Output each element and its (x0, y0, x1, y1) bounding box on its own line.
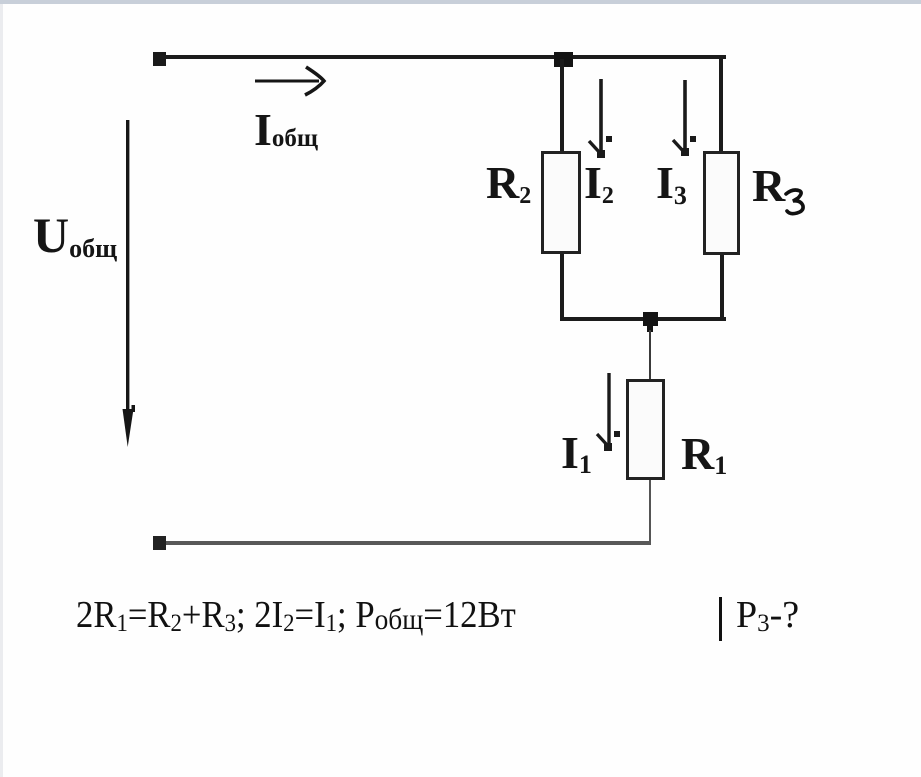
wire: R1 bottom to bottom rail (649, 480, 652, 541)
label: U общ (33, 210, 117, 260)
resistor R3 (703, 151, 740, 255)
label: I3 (656, 160, 687, 206)
node: top-left terminal dot (153, 52, 166, 66)
left grey strip (0, 4, 3, 777)
label: I1 (561, 430, 592, 476)
wire: junction to R1 (649, 330, 651, 379)
label: I общ (254, 107, 318, 153)
label: R2 (486, 160, 531, 206)
wire: R3 bottom leg (720, 255, 724, 320)
wire: branch down to R2 (560, 59, 564, 152)
node: top junction dot (554, 52, 573, 67)
arrow: I2 current arrow (589, 79, 612, 158)
wire: bottom of parallel section (560, 317, 726, 321)
label: handwritten 3 of R3 (786, 190, 803, 214)
node: bottom-left terminal dot (153, 536, 166, 550)
resistor R1 (626, 379, 665, 480)
wire: R2 bottom leg (560, 254, 564, 320)
wire: bottom horizontal rail (160, 541, 651, 545)
node: lower junction dot (643, 312, 658, 326)
top grey band (0, 0, 921, 4)
label: R1 (681, 431, 727, 477)
wire: right vertical down to R3 (719, 55, 723, 152)
resistor R2 (541, 151, 581, 254)
wire: top horizontal (160, 55, 726, 59)
label: I2 (584, 160, 614, 206)
arrow: I3 current arrow (673, 80, 696, 156)
arrow: I1 current arrow (597, 373, 620, 451)
arrow: U общ voltage arrow (down, left side) (123, 120, 136, 447)
divider bar (719, 597, 722, 641)
text: P3 question (736, 596, 799, 634)
label: R of R3 (752, 163, 785, 209)
arrow: I общ current arrow (right, top) (255, 67, 324, 95)
text: given equation line (76, 596, 516, 634)
